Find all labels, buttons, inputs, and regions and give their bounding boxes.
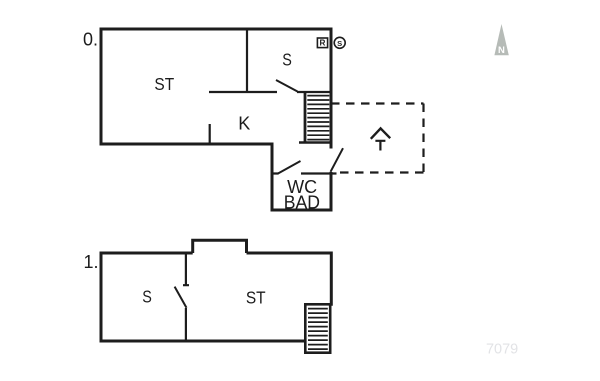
svg-text:N: N (498, 45, 505, 56)
svg-text:S: S (282, 50, 292, 70)
svg-text:ST: ST (246, 287, 266, 307)
svg-text:7079: 7079 (486, 342, 518, 358)
svg-text:0.: 0. (83, 30, 98, 50)
svg-text:1.: 1. (83, 252, 98, 272)
svg-text:ST: ST (154, 74, 174, 94)
svg-text:BAD: BAD (284, 192, 320, 212)
svg-text:K: K (238, 113, 250, 133)
svg-text:S: S (337, 39, 342, 48)
svg-text:S: S (142, 287, 152, 307)
svg-text:R: R (320, 39, 326, 48)
